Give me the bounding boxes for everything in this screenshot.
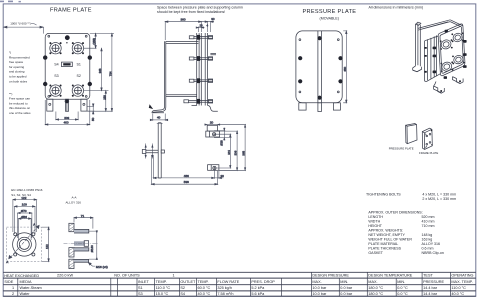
table row 2 headers bbox=[4, 280, 472, 284]
svg-text:0.0 bar: 0.0 bar bbox=[340, 286, 353, 290]
svg-text:30: 30 bbox=[221, 174, 225, 178]
svg-text:OPERATING: OPERATING bbox=[451, 274, 473, 278]
flange mid circle bbox=[17, 237, 31, 251]
iso pack edge marks bbox=[424, 47, 427, 73]
svg-text:220.0 kW: 220.0 kW bbox=[57, 274, 73, 278]
dim 122 vertical bbox=[42, 227, 50, 261]
dim 794 overall bbox=[108, 33, 112, 111]
svg-text:should be kept free from fixed: should be kept free from fixed installat… bbox=[157, 10, 225, 14]
svg-text:4 x M20, L = 330 mm: 4 x M20, L = 330 mm bbox=[422, 192, 456, 196]
svg-text:Water: Water bbox=[20, 292, 31, 296]
svg-text:TEST: TEST bbox=[423, 274, 433, 278]
dim 71 bbox=[74, 214, 93, 229]
iso bolt top center bbox=[445, 30, 448, 33]
svg-text:2 x M20, L = 330 mm: 2 x M20, L = 330 mm bbox=[422, 197, 456, 201]
dim 30 bbox=[201, 17, 215, 32]
iso feet bbox=[434, 77, 464, 94]
bolt washer dims bbox=[145, 144, 153, 159]
dim 28 bbox=[196, 23, 209, 32]
svg-text:TIGHTENING BOLTS: TIGHTENING BOLTS bbox=[366, 192, 401, 196]
svg-text:PRES. DROP: PRES. DROP bbox=[251, 280, 275, 284]
plan column bar bbox=[158, 123, 161, 178]
note left asterisk block 2 bbox=[9, 92, 31, 115]
svg-text:NET WEIGHT, EMPTY: NET WEIGHT, EMPTY bbox=[368, 233, 405, 237]
svg-text:100: 100 bbox=[22, 203, 27, 207]
svg-text:110.0 °C: 110.0 °C bbox=[451, 286, 466, 290]
svg-text:7.58 m³/h: 7.58 m³/h bbox=[217, 292, 233, 296]
svg-text:A: A bbox=[6, 260, 8, 264]
svg-text:MAX.: MAX. bbox=[312, 280, 321, 284]
svg-text:710 mm: 710 mm bbox=[422, 224, 435, 228]
iso ports bbox=[440, 32, 464, 73]
carrying bar top bbox=[166, 42, 199, 44]
bolt left upper bbox=[43, 55, 47, 59]
svg-text:30: 30 bbox=[211, 17, 215, 21]
plan top foot bbox=[206, 125, 220, 137]
svg-text:S3: S3 bbox=[54, 74, 58, 78]
iso pack left face bbox=[425, 41, 427, 82]
svg-text:TEMP.: TEMP. bbox=[198, 280, 209, 284]
foundation bolt bbox=[142, 150, 164, 154]
svg-text:MIN.: MIN. bbox=[397, 280, 405, 284]
svg-text:486: 486 bbox=[184, 174, 189, 178]
svg-text:2: 2 bbox=[12, 292, 14, 296]
dim 066 bbox=[18, 215, 31, 240]
svg-text:S3: S3 bbox=[138, 292, 143, 296]
svg-text:ALLOY 316: ALLOY 316 bbox=[422, 242, 441, 246]
section line A-A bbox=[6, 222, 39, 263]
iso tightening bolt nuts left edge bbox=[433, 47, 437, 74]
dim 486 bbox=[153, 155, 214, 179]
pp foot left bbox=[299, 103, 306, 110]
svg-text:and closing: and closing bbox=[9, 70, 25, 74]
dim 100 bbox=[15, 203, 36, 234]
svg-text:368: 368 bbox=[242, 150, 246, 155]
svg-text:All dimensions in millimeters: All dimensions in millimeters (mm) bbox=[369, 6, 424, 10]
svg-text:Ø70: Ø70 bbox=[21, 209, 27, 213]
svg-text:244: 244 bbox=[227, 150, 231, 155]
svg-text:400: 400 bbox=[64, 121, 69, 125]
svg-text:180.0 °C: 180.0 °C bbox=[368, 286, 383, 290]
svg-text:SIDE: SIDE bbox=[4, 280, 13, 284]
lower guide bar bbox=[166, 95, 197, 97]
svg-text:OUTLET: OUTLET bbox=[180, 280, 196, 284]
pressure plate outline bbox=[296, 31, 342, 103]
dim 122 top bbox=[13, 196, 37, 232]
svg-text:60.0 °C: 60.0 °C bbox=[198, 286, 211, 290]
svg-text:Free space can: Free space can bbox=[9, 97, 30, 101]
svg-text:163 kg: 163 kg bbox=[422, 237, 433, 241]
dim 368 ports bbox=[84, 48, 109, 90]
svg-text:S2: S2 bbox=[180, 286, 185, 290]
svg-text:Recommended: Recommended bbox=[9, 55, 30, 59]
port S2 bottom-right bbox=[72, 85, 84, 97]
svg-text:S1: S1 bbox=[138, 286, 143, 290]
svg-text:40: 40 bbox=[157, 116, 161, 120]
center bar bbox=[318, 31, 322, 103]
pp side bolts bbox=[298, 56, 302, 60]
svg-text:A-A: A-A bbox=[72, 196, 77, 200]
svg-text:S4: S4 bbox=[54, 63, 58, 67]
svg-text:DESIGN TEMPERATURE: DESIGN TEMPERATURE bbox=[368, 274, 412, 278]
svg-text:1: 1 bbox=[12, 286, 14, 290]
svg-text:10.0 bar: 10.0 bar bbox=[312, 292, 327, 296]
dim 0140 bbox=[89, 231, 98, 260]
svg-text:Ø66: Ø66 bbox=[21, 215, 27, 219]
svg-text:LENGTH: LENGTH bbox=[368, 215, 383, 219]
dim 20 top foot bbox=[205, 120, 220, 125]
label M16 x4 bbox=[88, 263, 107, 269]
svg-text:DESIGN PRESSURE: DESIGN PRESSURE bbox=[312, 274, 349, 278]
dim 30 plan bbox=[214, 171, 224, 179]
svg-text:0.0 °C: 0.0 °C bbox=[397, 286, 408, 290]
svg-text:FRAME PLATE: FRAME PLATE bbox=[50, 8, 92, 14]
svg-text:TEMP.: TEMP. bbox=[156, 280, 167, 284]
section liner bottom bbox=[74, 248, 89, 251]
svg-text:PLATE MATERIAL: PLATE MATERIAL bbox=[368, 242, 398, 246]
svg-text:FLOW RATE: FLOW RATE bbox=[217, 280, 239, 284]
svg-text:APPROX. WEIGHTS:: APPROX. WEIGHTS: bbox=[368, 228, 403, 232]
port S3 bottom-left bbox=[49, 85, 61, 97]
svg-text:S2: S2 bbox=[77, 74, 81, 78]
plan small ticks bbox=[157, 122, 163, 124]
svg-text:148 kg: 148 kg bbox=[422, 233, 433, 237]
svg-text:MAX. TEMP.: MAX. TEMP. bbox=[451, 280, 472, 284]
svg-text:306: 306 bbox=[234, 150, 238, 155]
logo plate bbox=[62, 62, 73, 67]
svg-text:14.4 bar: 14.4 bar bbox=[423, 286, 438, 290]
svg-text:PRESSURE PLATE: PRESSURE PLATE bbox=[389, 146, 414, 150]
note left asterisk block 1 bbox=[9, 51, 30, 84]
frame center tab bbox=[66, 99, 69, 111]
svg-text:A: A bbox=[33, 222, 35, 226]
svg-text:for opening: for opening bbox=[9, 65, 25, 69]
dim 306 bbox=[217, 131, 238, 170]
svg-text:MIN.: MIN. bbox=[340, 280, 348, 284]
svg-text:650: 650 bbox=[343, 66, 347, 71]
bolt right upper bbox=[88, 55, 92, 59]
pp foot right bbox=[333, 103, 340, 110]
support column bbox=[152, 41, 166, 112]
svg-text:ALLOY 316: ALLOY 316 bbox=[66, 201, 82, 205]
frame plate corner screws bbox=[48, 35, 87, 97]
iso tightening bolt nuts right edge bbox=[463, 40, 467, 68]
svg-text:M16 (x4): M16 (x4) bbox=[96, 265, 108, 269]
dim 650 bbox=[343, 31, 347, 103]
svg-text:on both sides: on both sides bbox=[9, 79, 28, 83]
table row 4 bbox=[12, 292, 464, 296]
svg-text:14.4 bar: 14.4 bar bbox=[423, 292, 438, 296]
table row 3 bbox=[12, 286, 466, 290]
svg-text:520 mm: 520 mm bbox=[422, 215, 435, 219]
frame foot right bbox=[81, 99, 87, 111]
dim 190 bbox=[87, 91, 113, 112]
port S4 top-left bbox=[49, 42, 61, 54]
svg-text:APPROX. OUTER DIMENSIONS:: APPROX. OUTER DIMENSIONS: bbox=[368, 210, 422, 214]
frame foot left bbox=[47, 99, 53, 111]
svg-text:WIDTH: WIDTH bbox=[368, 219, 380, 223]
dim 538 bbox=[152, 155, 218, 185]
iso frame plate top edge bbox=[450, 20, 463, 27]
dim 50 foot bbox=[87, 104, 95, 122]
svg-text:PLATE THICKNESS: PLATE THICKNESS bbox=[368, 246, 401, 250]
iso face inner rim bbox=[440, 26, 463, 73]
svg-text:794: 794 bbox=[108, 71, 112, 76]
flange dashed plate bbox=[7, 227, 42, 261]
bolt right lower bbox=[88, 82, 92, 86]
svg-text:free space: free space bbox=[9, 60, 24, 64]
svg-text:(MOVABLE): (MOVABLE) bbox=[320, 17, 340, 21]
svg-text:INLET: INLET bbox=[138, 280, 149, 284]
svg-text:28: 28 bbox=[200, 23, 204, 27]
section flange hatched bottom bbox=[69, 259, 74, 268]
column foot arrow bbox=[149, 104, 153, 109]
svg-text:20: 20 bbox=[210, 120, 214, 124]
iso column foot bbox=[413, 66, 422, 72]
svg-text:71: 71 bbox=[81, 214, 85, 218]
dim 400 bbox=[45, 100, 90, 125]
iso bolt bottom center bbox=[444, 76, 447, 79]
dim 203 bbox=[56, 112, 78, 121]
svg-text:0.0 °C: 0.0 °C bbox=[397, 292, 408, 296]
tightening bolt row 4 bbox=[184, 99, 213, 104]
section centerline bbox=[64, 243, 99, 245]
flange outer circle bbox=[13, 233, 36, 256]
svg-text:5.2 kPa: 5.2 kPa bbox=[251, 286, 265, 290]
svg-text:110.0 °C: 110.0 °C bbox=[156, 286, 171, 290]
pictogram pressure plate bbox=[406, 124, 417, 144]
svg-text:190: 190 bbox=[102, 95, 106, 100]
svg-text:S4: S4 bbox=[180, 292, 185, 296]
pp corner screws bbox=[299, 39, 339, 93]
svg-text:0.6 mm: 0.6 mm bbox=[422, 246, 434, 250]
svg-text:40.0 °C: 40.0 °C bbox=[451, 292, 464, 296]
svg-text:**): **) bbox=[9, 92, 12, 96]
dim o18 leader bbox=[214, 128, 232, 146]
svg-text:203: 203 bbox=[64, 116, 69, 120]
svg-text:0.0 bar: 0.0 bar bbox=[340, 292, 353, 296]
svg-text:MEDIA: MEDIA bbox=[20, 280, 32, 284]
svg-text:one of the sides: one of the sides bbox=[9, 111, 31, 115]
svg-text:360: 360 bbox=[181, 18, 186, 22]
svg-text:PRESSURE PLATE: PRESSURE PLATE bbox=[303, 9, 357, 15]
svg-text:HEIGHT: HEIGHT bbox=[368, 224, 382, 228]
svg-text:(258): (258) bbox=[92, 38, 96, 45]
svg-text:122: 122 bbox=[45, 244, 49, 249]
bolt left lower bbox=[43, 82, 47, 86]
svg-text:5.6 kPa: 5.6 kPa bbox=[251, 292, 265, 296]
frame plate outline bbox=[45, 33, 90, 99]
iso port studs and bolts bbox=[440, 32, 465, 72]
pp bottom bolt bbox=[318, 96, 322, 100]
dim 40 column foot bbox=[150, 114, 168, 121]
svg-text:50: 50 bbox=[91, 117, 95, 121]
dim 360 bbox=[165, 18, 201, 40]
svg-text:180.0 °C: 180.0 °C bbox=[368, 292, 383, 296]
plan bottom foot bbox=[208, 165, 219, 171]
svg-text:1000 *)/ 600 **): 1000 *)/ 600 **) bbox=[10, 21, 31, 25]
flange bore bbox=[19, 239, 29, 249]
section liner top bbox=[74, 229, 89, 233]
svg-text:538: 538 bbox=[184, 180, 189, 184]
table row 1 bbox=[4, 274, 473, 278]
section stud rod bbox=[74, 241, 85, 245]
bolt top center bbox=[65, 35, 70, 40]
dim 368 plan bbox=[217, 125, 246, 171]
pp top bolt bbox=[318, 36, 322, 40]
section flange hatched mid bbox=[69, 248, 74, 257]
svg-text:PRESSURE: PRESSURE bbox=[423, 280, 444, 284]
dim 070 bbox=[18, 209, 32, 238]
svg-text:be reduced to: be reduced to bbox=[9, 101, 28, 105]
svg-text:1: 1 bbox=[173, 274, 175, 278]
svg-text:40.0 °C: 40.0 °C bbox=[198, 292, 211, 296]
pack bottom foot bbox=[208, 106, 218, 112]
svg-text:Space between pressure plate a: Space between pressure plate and support… bbox=[157, 6, 243, 10]
svg-text:EN 1092-1 DN65 PN16: EN 1092-1 DN65 PN16 bbox=[11, 188, 43, 192]
pp center tab bbox=[318, 103, 322, 112]
svg-text:WEIGHT FULL OF WATER: WEIGHT FULL OF WATER bbox=[368, 237, 412, 241]
svg-text:325 kg/h: 325 kg/h bbox=[217, 286, 232, 290]
svg-text:Water-Steam: Water-Steam bbox=[20, 286, 42, 290]
iso frame plate face bbox=[438, 24, 465, 76]
plate pack lines bbox=[197, 33, 216, 106]
svg-text:15.0 °C: 15.0 °C bbox=[156, 292, 169, 296]
svg-text:S1: S1 bbox=[77, 63, 81, 67]
svg-text:this distance on: this distance on bbox=[9, 106, 30, 110]
tightening bolt row 3 bbox=[189, 78, 212, 83]
port S1 top-right bbox=[72, 42, 84, 54]
header artifact marks bbox=[0, 1, 21, 3]
svg-text:NBRB Clip-on: NBRB Clip-on bbox=[422, 251, 444, 255]
svg-text:Ø140: Ø140 bbox=[90, 245, 94, 252]
svg-text:Ø18: Ø18 bbox=[219, 140, 223, 146]
iso carrying bar bbox=[418, 20, 450, 30]
dim (258) bbox=[84, 33, 114, 48]
svg-text:10.0 bar: 10.0 bar bbox=[312, 286, 327, 290]
section flange hatched top bbox=[69, 223, 74, 231]
svg-text:410 mm: 410 mm bbox=[422, 219, 435, 223]
iso support column bbox=[416, 23, 421, 66]
svg-text:*): *) bbox=[9, 51, 11, 55]
svg-text:FRAME PLATE: FRAME PLATE bbox=[419, 151, 438, 155]
svg-text:HEAT EXCHANGED: HEAT EXCHANGED bbox=[4, 274, 39, 278]
svg-text:GASKET: GASKET bbox=[368, 251, 383, 255]
dim 1000/600 line bbox=[4, 24, 44, 34]
svg-text:NO. OF UNITS: NO. OF UNITS bbox=[114, 274, 140, 278]
svg-text:MAX.: MAX. bbox=[368, 280, 377, 284]
iso column cap bbox=[416, 22, 421, 25]
pictogram frame plate bbox=[422, 128, 432, 149]
flange stud holes bbox=[14, 233, 35, 256]
tightening bolt row 1 bbox=[189, 35, 212, 40]
section gasket lip bbox=[74, 259, 89, 262]
tightening bolt row 2 bbox=[189, 56, 212, 61]
svg-text:to be applied: to be applied bbox=[9, 75, 27, 79]
svg-text:368: 368 bbox=[98, 68, 102, 73]
dim 244 bbox=[214, 134, 231, 168]
bolt bottom center bbox=[65, 99, 69, 103]
svg-text:122: 122 bbox=[21, 196, 26, 200]
